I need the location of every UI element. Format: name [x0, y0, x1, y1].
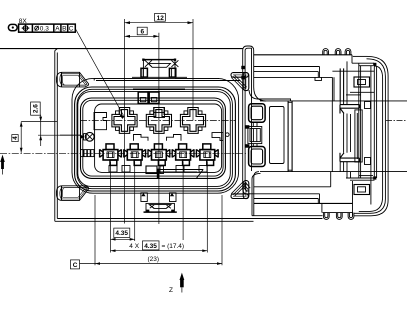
dim 4 line vertical: [20, 122, 22, 153]
svg-text:Z: Z: [169, 287, 173, 294]
long body line upper: [260, 100, 407, 102]
housing left edge: [54, 51, 56, 222]
mating flange: [243, 46, 254, 180]
svg-text:0.3: 0.3: [40, 26, 49, 33]
svg-text:4.35: 4.35: [115, 230, 128, 237]
dim 23 line: [80, 263, 223, 265]
extension line x2: [158, 33, 160, 224]
small rects below center: [146, 166, 157, 174]
small rect below terminal 4: [176, 166, 184, 173]
latch tab top: [141, 59, 178, 78]
extension y1: [21, 121, 57, 123]
latch catch: [315, 77, 322, 80]
latch tab bottom: [141, 193, 177, 212]
vent bottom: [354, 185, 370, 195]
svg-text:= (17.4): = (17.4): [162, 243, 185, 250]
centerline stub right: [386, 120, 407, 122]
body top edge: [254, 54, 352, 56]
dim 6 line: [125, 35, 159, 37]
neck arc top: [254, 87, 266, 101]
top ribs: [323, 49, 329, 55]
section arrow left edge: [0, 155, 5, 162]
wedge mid window: [248, 127, 262, 144]
cpa arm lower: [340, 153, 360, 162]
small terminal Y4: [172, 144, 194, 166]
shroud wall outer: [81, 98, 226, 178]
terminal pocket outline: [95, 104, 222, 172]
svg-text:2.6: 2.6: [33, 104, 40, 113]
big terminal X2: [146, 108, 171, 134]
svg-text:6: 6: [141, 29, 145, 36]
pocket keying bar: [157, 169, 203, 179]
left wall keyway rect: [94, 113, 107, 130]
bottom profile lines: [254, 172, 259, 216]
wedge lock lower: [249, 147, 266, 167]
dim 4 box rotated: [12, 135, 18, 142]
housing corner chamfer top-left: [55, 49, 58, 51]
small terminal Y5: [196, 144, 218, 166]
svg-text:(23): (23): [148, 256, 160, 263]
cap top contours: [354, 56, 389, 215]
corner gusset bottom-right (elbow): [231, 181, 249, 199]
latch slot in cavity top: [94, 77, 240, 117]
corner gusset top-right (elbow): [231, 73, 249, 91]
leader to terminal X1: [75, 29, 123, 116]
section arrow Z: [180, 273, 185, 280]
cavity shoulder ring: [72, 78, 239, 193]
terminal centerline bottom row: [0, 152, 246, 154]
shroud wall inner: [83, 100, 223, 176]
cpa arm upper: [340, 105, 360, 114]
small rect below terminal 5: [199, 166, 207, 173]
bottom extension lines: [110, 162, 112, 253]
vent top: [354, 77, 370, 87]
body step verticals: [287, 101, 289, 172]
small rect below terminal 2: [122, 166, 130, 173]
svg-text:12: 12: [157, 15, 165, 22]
svg-text:C: C: [69, 26, 74, 33]
cap internal lines: [350, 91, 375, 93]
inter-arm verticals: [343, 114, 345, 153]
long projection line top: [0, 48, 243, 50]
small terminal Y1: [100, 144, 122, 166]
long body line lower: [260, 171, 407, 173]
terminals: [100, 108, 219, 166]
extension line x1: [124, 19, 126, 224]
polarization key right: [167, 135, 182, 141]
dia 0.3: [35, 26, 39, 30]
latch beam: [254, 66, 320, 68]
side view: [241, 46, 407, 219]
tall window rect: [270, 107, 285, 164]
big terminal X1: [112, 108, 137, 134]
left wall circle feature: [60, 132, 94, 141]
front view outer body: [55, 49, 323, 222]
polarization key left: [134, 135, 149, 141]
dim 2.6 box rotated: [31, 102, 41, 115]
datum C box: [71, 260, 80, 269]
position symbol: [23, 26, 28, 31]
svg-text:A: A: [55, 26, 60, 33]
cpa slider end blocks: [365, 102, 371, 109]
dim 4.35 line: [111, 238, 135, 240]
dimensions: [0, 13, 222, 294]
extension line terminal Y4: [182, 162, 184, 240]
dim 12 box: [155, 13, 166, 21]
big terminal X3: [180, 108, 205, 134]
terminal centerline top row: [80, 120, 236, 122]
cpa tower stubs: [340, 101, 347, 172]
corner gusset top-left: [56, 72, 88, 87]
wedge lock upper: [249, 104, 266, 123]
svg-text:B: B: [62, 26, 66, 33]
small terminal Y2: [124, 144, 146, 166]
dim 17.4 line: [111, 250, 208, 252]
svg-text:C: C: [73, 262, 78, 269]
extension line x3: [192, 19, 194, 120]
svg-text:4: 4: [12, 136, 19, 140]
dim 4.35 box: [114, 228, 130, 237]
leader to keyway: [38, 134, 80, 136]
cpa tower verticals: [331, 77, 333, 101]
dim 12 line: [125, 22, 194, 24]
cpa slider channel: [355, 110, 362, 162]
cavity seal ring 3: [78, 92, 231, 187]
cap mid verticals: [373, 66, 375, 178]
cap face: [358, 63, 360, 178]
balloon 6: [8, 24, 17, 30]
small rect below terminal 1: [109, 166, 117, 173]
dim 2.6 witness: [40, 115, 42, 146]
corner gusset bottom-left: [56, 186, 88, 201]
housing bottom edge: [55, 220, 254, 222]
cavity seal ring 1: [75, 87, 236, 191]
wedge left stubs: [245, 125, 250, 129]
small terminal Y3: [148, 144, 170, 166]
bottom bumps: [323, 213, 329, 220]
left wall lower bars: [81, 150, 95, 157]
feature control frame: [19, 24, 76, 32]
flange bold marks: [241, 66, 245, 69]
cavity seal ring 2: [77, 89, 232, 188]
right wall hook: [212, 133, 229, 141]
svg-text:4.35: 4.35: [144, 243, 157, 250]
svg-text:4 X: 4 X: [129, 243, 139, 250]
dim 6 box: [137, 27, 147, 35]
